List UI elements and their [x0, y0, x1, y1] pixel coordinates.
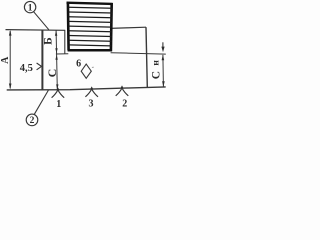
svg-text:4,5: 4,5 — [20, 63, 33, 74]
svg-text:2: 2 — [30, 116, 35, 126]
svg-text:1: 1 — [28, 3, 33, 13]
svg-text:А: А — [0, 56, 11, 64]
svg-text:Б: Б — [43, 37, 55, 45]
svg-text:3: 3 — [89, 98, 94, 109]
svg-text:1: 1 — [56, 99, 61, 110]
svg-text:6: 6 — [76, 59, 81, 70]
svg-text:С: С — [150, 71, 162, 79]
svg-text:2: 2 — [122, 98, 127, 109]
svg-text:С: С — [45, 69, 59, 78]
svg-text:н: н — [152, 60, 162, 66]
